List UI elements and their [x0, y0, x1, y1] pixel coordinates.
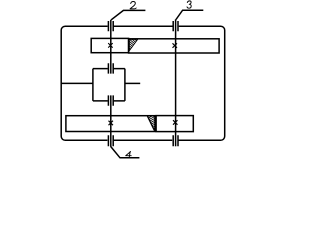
shaft II (vertical) [175, 19, 177, 146]
label digit 3 [187, 1, 191, 8]
wall line left (frame to sleeve) [61, 82, 93, 84]
bearing: shaft I in sleeve top [108, 63, 113, 73]
hatched wedge at mesh of z3/z4 [147, 116, 154, 131]
gear z2 on shaft II (top large gear) [129, 39, 220, 53]
bearing: shaft I in sleeve bottom [108, 95, 113, 105]
gear z1 on shaft I (top small gear) [91, 38, 128, 52]
bearing: shaft II in bottom wall [173, 135, 178, 146]
leader line label 4 [111, 147, 140, 158]
x mark gear z4 [173, 120, 178, 125]
sleeve (quill) on shaft I with bearing gaps [93, 69, 125, 101]
gear z4 on shaft II (bottom small gear) [156, 116, 193, 132]
bearing 2: shaft I in top wall [108, 21, 113, 31]
bearing 4: shaft I in bottom wall [108, 135, 113, 146]
hatched wedge at mesh of z1/z2 [129, 40, 137, 51]
label digit 4 [126, 152, 132, 158]
x mark gear z2 [173, 43, 178, 48]
leader line label 2 [111, 10, 145, 19]
leader line label 3 [176, 10, 203, 19]
shaft I (vertical) [110, 20, 112, 147]
label digit 2 [130, 2, 136, 9]
housing frame (gearbox casing) with bearing gaps [61, 26, 225, 140]
gear z3 on shaft I (bottom large gear) [66, 116, 155, 132]
x mark gear z1 [108, 43, 113, 48]
x mark gear z3 [109, 121, 114, 126]
bearing 3: shaft II in top wall [173, 21, 178, 31]
wall line right (sleeve, broken end) [125, 82, 140, 84]
